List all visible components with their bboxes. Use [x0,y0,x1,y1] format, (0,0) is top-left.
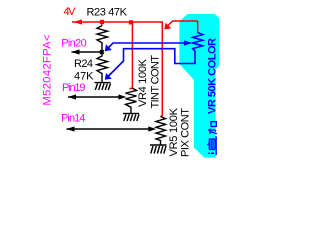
svg-text:Pin14: Pin14 [61,112,86,124]
svg-text:47K: 47K [74,71,94,83]
svg-text:Pin20: Pin20 [61,38,86,50]
svg-text:R23 47K: R23 47K [87,7,128,19]
svg-text:VR5 100K: VR5 100K [168,107,180,156]
svg-text:R24: R24 [74,58,93,70]
svg-text:PIX CONT: PIX CONT [180,108,192,157]
svg-text:VR 50K COLOR: VR 50K COLOR [207,38,219,114]
svg-text:M52042FPA<: M52042FPA< [42,35,54,106]
svg-text:4V: 4V [64,6,77,18]
svg-text:Pin19: Pin19 [62,82,86,94]
svg-text:TINT CONT: TINT CONT [150,55,162,109]
svg-text:VR4 100K: VR4 100K [137,58,149,107]
